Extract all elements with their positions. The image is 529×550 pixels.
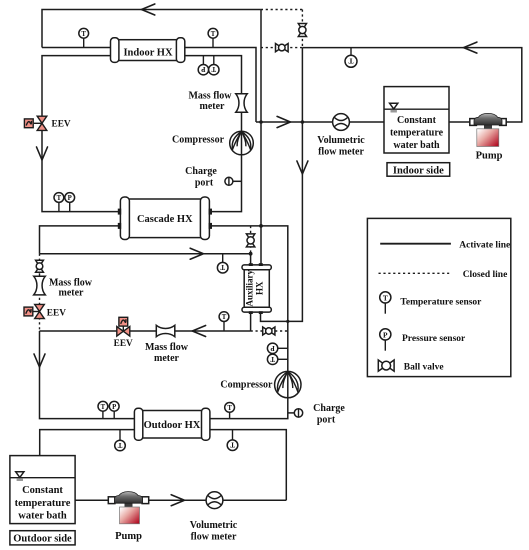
svg-text:T: T — [57, 195, 62, 202]
svg-text:T: T — [230, 441, 235, 449]
svg-text:Pressure sensor: Pressure sensor — [402, 334, 466, 344]
svg-text:Activate line: Activate line — [459, 240, 510, 250]
mass flow meter MF3 (horizontal, y=331 row) — [156, 325, 175, 336]
wire: outdoor bath to pump 2 — [75, 499, 110, 501]
svg-text:T: T — [227, 405, 232, 412]
svg-text:temperature: temperature — [15, 498, 71, 509]
svg-text:EEV: EEV — [52, 120, 71, 130]
svg-text:meter: meter — [59, 287, 85, 298]
label box: Outdoor side — [10, 531, 75, 545]
wire: indoor water supply line y=122 to bath — [256, 121, 384, 123]
legend: pressure sensor — [380, 329, 391, 351]
wire: charge port 2 stub — [288, 412, 295, 414]
wire arrow: leftward flow on y=47.6 — [464, 42, 477, 53]
svg-text:Volumetric: Volumetric — [317, 135, 365, 146]
svg-text:P: P — [201, 65, 206, 73]
wire: mass flow meter to compressor — [241, 112, 243, 131]
svg-text:flow meter: flow meter — [191, 532, 237, 543]
heat exchanger: Indoor HX — [111, 38, 185, 63]
svg-text:Temperature sensor: Temperature sensor — [400, 298, 482, 308]
svg-text:P: P — [68, 195, 72, 202]
sensor P1 (pressure, inverted, below Indoor HX right line) — [198, 56, 208, 75]
sensor T2 (temperature, top-right of Indoor HX) — [208, 28, 218, 47]
heat exchanger: Cascade HX — [118, 197, 212, 240]
wire: closed line dotted cascade-to-aux bypass x=250.6 — [250, 226, 252, 254]
wire: outdoor HX lower-right water out to down-riser — [210, 430, 287, 501]
svg-text:T: T — [101, 404, 106, 411]
ball valve B3 (dotted cascade bypass, vertical, x=250.6) — [246, 234, 254, 247]
wire: auxiliary HX top water stub up to top line — [260, 10, 262, 267]
svg-text:P: P — [383, 330, 388, 339]
water bath 1 (indoor constant temperature water bath) — [384, 87, 449, 153]
sensor T7 (temperature, above y=331 row) — [219, 312, 229, 331]
svg-text:water bath: water bath — [393, 140, 440, 151]
svg-text:T: T — [220, 263, 225, 271]
wire: indoor HX upper-right water outlet to down pipe — [184, 48, 256, 123]
svg-text:Ball valve: Ball valve — [404, 362, 444, 372]
wire arrow: leftward flow on top line — [142, 4, 155, 15]
svg-text:Compressor: Compressor — [172, 134, 225, 145]
svg-text:EEV: EEV — [114, 339, 133, 349]
wire: pump 2 to flow meter 2 — [148, 499, 207, 501]
wire: closed line dotted bypass y=47.6 with ball valve — [261, 47, 303, 49]
wire: auxiliary HX bottom-left stub to y=331 row — [250, 311, 252, 331]
wire: cascade HX lower-left out to left drop — [40, 226, 122, 254]
pump 1 (indoor side) — [470, 113, 506, 146]
svg-text:port: port — [195, 178, 214, 189]
wire: outdoor HX upper-right to compressor suction riser — [210, 398, 288, 419]
ball valve B1 (dotted bypass, vertical, x=302.4) — [298, 24, 306, 37]
legend box — [367, 218, 510, 376]
wire: pump to right riser and top water return y=47.6 — [302, 48, 521, 122]
svg-text:Pump: Pump — [476, 150, 503, 161]
ball valve B4 (left dashed branch, vertical, x=39.5) — [36, 260, 44, 272]
pump 2 (outdoor side) — [108, 492, 148, 524]
svg-text:Constant: Constant — [397, 115, 437, 126]
sensor T12 (inverted, below outdoor HX right water line) — [227, 430, 238, 451]
svg-text:Pump: Pump — [115, 531, 142, 542]
wire: closed line dotted top bypass y=9.5 — [261, 9, 303, 11]
svg-text:P: P — [270, 344, 275, 352]
mass flow meter MF1 (vertical, top) — [236, 94, 247, 112]
svg-text:Cascade HX: Cascade HX — [137, 214, 193, 225]
sensor T1 (temperature, top-left of Indoor HX) — [79, 28, 89, 47]
svg-text:meter: meter — [154, 353, 180, 364]
wire: charge port stub — [233, 180, 242, 182]
svg-text:T: T — [211, 65, 216, 73]
svg-text:Volumetric: Volumetric — [190, 520, 238, 531]
wire: indoor water top return line y=9.5 — [42, 10, 261, 48]
svg-text:T: T — [117, 441, 122, 449]
wire arrow: rightward flow on y=122 — [277, 116, 290, 127]
wire: compressor 2 discharge riser up to cascade HX lower-right — [209, 226, 288, 372]
ball valve B5 (dashed aux bypass, horizontal, y=331) — [263, 327, 275, 335]
wire: center riser x=302.4 down to auxiliary HX water port — [261, 48, 303, 322]
wire arrow: leftward flow on y=331 — [192, 326, 205, 337]
sensor P3 (pressure, inverted, on compressor 2 suction) — [267, 343, 287, 353]
wire: indoor HX lower-right to mass flow meter — [184, 56, 242, 94]
wire arrow: downward flow below EEV — [37, 147, 48, 160]
legend: activate line — [380, 243, 451, 245]
svg-text:Indoor side: Indoor side — [393, 165, 444, 176]
svg-text:T: T — [270, 355, 275, 363]
wire: compressor discharge down to cascade HX upper-right — [209, 155, 242, 212]
wire: closed line dashed left branch x=39.5 (ball valve, MFM, EEV) — [39, 254, 41, 331]
sensor T6 (inverted, below y=253.7 feed line) — [217, 254, 228, 273]
node: junction dots — [259, 120, 263, 124]
wire: indoor HX lower-left refrigerant to EEV — [42, 56, 112, 116]
sensor T11 (inverted, below outdoor HX left water line) — [115, 430, 126, 451]
wire: EEV down to cascade HX upper-left — [42, 131, 121, 212]
charge port P2 — [294, 409, 302, 417]
wire: closed line dashed aux bypass y=331 to compressor suction — [251, 330, 288, 332]
wire: horizontal feed y=253.7 to auxiliary HX — [40, 253, 251, 255]
svg-text:port: port — [317, 415, 336, 426]
svg-text:T: T — [81, 31, 86, 38]
wire: auxiliary HX top-left stub — [250, 254, 252, 266]
sensor T8 (temperature, inverted, on compressor 2 suction) — [267, 354, 287, 364]
legend: closed line — [379, 272, 450, 274]
charge port P1 — [225, 177, 233, 185]
wire: left drop x=39.5 down to outdoor HX upper-left — [40, 331, 136, 419]
wire: closed line dotted bypass x=302.4 with ball valve — [301, 10, 303, 48]
sensor T10 (temperature, outdoor HX upper-right) — [225, 403, 235, 419]
svg-text:T: T — [383, 293, 388, 302]
wire: refrigerant row y=331 through EEV and mass flow meter — [40, 330, 251, 332]
svg-text:water bath: water bath — [18, 511, 67, 522]
wire: indoor HX upper-left water inlet — [42, 47, 112, 49]
heat exchanger: Auxiliary HX (vertical) — [242, 263, 271, 314]
sensor T4 (temperature, inverted, below top water line) — [345, 48, 357, 68]
svg-text:temperature: temperature — [390, 128, 444, 139]
wire: bath to pump — [449, 121, 472, 123]
wire arrow: rightward flow on y=500.2 — [171, 495, 184, 506]
volumetric flow meter FM2 — [206, 492, 223, 509]
svg-text:T: T — [222, 314, 227, 321]
svg-text:Compressor: Compressor — [220, 379, 273, 390]
legend: temperature sensor — [380, 292, 391, 314]
EEV V2 (left branch, vertical) — [24, 304, 44, 318]
label box: Indoor side — [387, 163, 450, 177]
svg-text:Constant: Constant — [22, 485, 63, 496]
legend: ball valve — [378, 360, 394, 371]
ball valve B2 (dotted bypass, horizontal, y=47.6) — [276, 44, 289, 52]
wire arrow: downward flow on x=302.4 — [297, 161, 308, 174]
svg-text:T: T — [348, 57, 353, 66]
svg-text:T: T — [211, 31, 216, 38]
volumetric flow meter FM1 — [333, 114, 350, 131]
svg-text:Mass flow: Mass flow — [145, 342, 189, 353]
svg-text:Charge: Charge — [185, 166, 217, 177]
wire arrow: rightward flow on y=253.7 — [190, 248, 203, 259]
compressor C1 — [230, 131, 254, 155]
water bath 2 (outdoor constant temperature water bath) — [10, 456, 75, 524]
mass flow meter MF2 (vertical, left dashed branch) — [34, 276, 46, 295]
svg-text:flow meter: flow meter — [318, 147, 364, 158]
svg-text:HX: HX — [255, 281, 265, 295]
EEV V3 (y=331 row, horizontal) — [117, 317, 130, 336]
svg-text:Charge: Charge — [313, 403, 345, 414]
svg-text:Closed line: Closed line — [463, 270, 508, 280]
sensor T3 (temperature, inverted, below Indoor HX right line) — [209, 56, 219, 75]
wire arrow: downward flow above outdoor HX — [34, 354, 45, 367]
svg-text:Outdoor HX: Outdoor HX — [144, 420, 201, 431]
sensor T9 and P4 (outdoor HX upper-left) — [98, 401, 108, 418]
svg-text:Outdoor side: Outdoor side — [13, 534, 72, 545]
svg-text:Auxiliary: Auxiliary — [244, 270, 254, 307]
svg-text:EEV: EEV — [47, 308, 66, 318]
svg-text:Mass flow: Mass flow — [188, 91, 232, 102]
svg-text:meter: meter — [200, 101, 226, 112]
svg-text:Indoor HX: Indoor HX — [123, 48, 173, 59]
heat exchanger: Outdoor HX — [134, 408, 210, 440]
compressor C2 — [275, 371, 301, 397]
sensor T5 and P2 (cascade HX upper-left) — [54, 193, 64, 212]
wire: bottom water line y=500.2 flow meter to riser — [207, 499, 287, 501]
EEV V1 (top-left, vertical) — [24, 116, 46, 130]
wire: outdoor HX lower-left water back to bath — [40, 430, 135, 456]
svg-text:P: P — [112, 404, 116, 411]
